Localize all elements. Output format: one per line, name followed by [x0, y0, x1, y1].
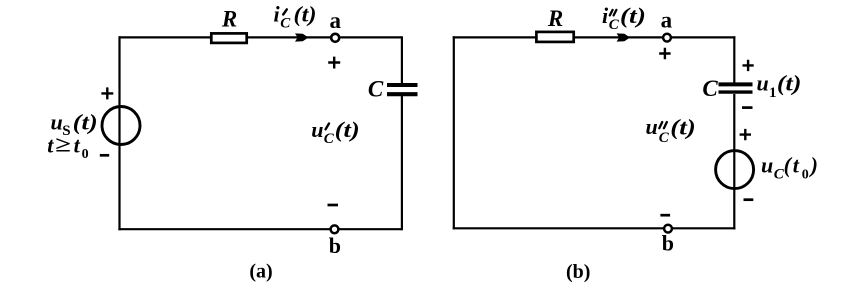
- svg-text:C: C: [368, 77, 384, 102]
- capacitor C (b) bottom plate: [719, 90, 753, 93]
- node b (a): [331, 225, 339, 233]
- svg-text:R: R: [221, 7, 237, 32]
- minus below source (b): [744, 198, 754, 201]
- node a (a): [331, 34, 339, 42]
- label u'C(t) (a) : prime: [326, 124, 329, 130]
- svg-text:0: 0: [82, 147, 89, 162]
- svg-text:a: a: [330, 8, 342, 33]
- svg-text:u: u: [311, 117, 323, 142]
- svg-text:t: t: [793, 153, 800, 178]
- svg-text:b: b: [662, 230, 674, 255]
- minus below capacitor (b): [742, 106, 753, 109]
- plus above source (b): [740, 129, 751, 140]
- current arrow (b): [617, 33, 630, 41]
- wire bottom (a): [118, 228, 402, 230]
- wire cap to source (b): [733, 94, 735, 229]
- minus below source (a): [100, 154, 109, 157]
- svg-text:): ): [809, 153, 818, 178]
- svg-text:a: a: [661, 7, 673, 32]
- capacitor C (b) top plate: [719, 82, 753, 86]
- node a (b): [663, 34, 671, 42]
- svg-text:C: C: [324, 131, 335, 147]
- svg-text:(t): (t): [335, 117, 360, 142]
- wire top (b): [453, 36, 736, 38]
- label u''C(t) (b) : double prime: [659, 122, 667, 128]
- source uC(t0) circle (b): [716, 151, 754, 189]
- svg-text:1: 1: [769, 85, 777, 101]
- svg-text:(t): (t): [670, 115, 696, 140]
- svg-text:(a): (a): [249, 261, 272, 283]
- wire right (a): [401, 36, 403, 83]
- minus above node b (a): [328, 204, 339, 207]
- svg-text:u: u: [761, 153, 773, 178]
- current arrow (a): [295, 33, 308, 41]
- plus below node a (b): [659, 48, 670, 60]
- capacitor C (a) top plate: [387, 83, 418, 87]
- svg-text:C: C: [280, 16, 291, 32]
- current label i'C(t) (a) : prime: [283, 9, 287, 14]
- svg-text:u: u: [757, 71, 769, 96]
- svg-text:(t): (t): [777, 71, 802, 96]
- minus above node b (b): [660, 214, 670, 217]
- wire top (a): [119, 36, 402, 38]
- svg-text:(b): (b): [566, 261, 590, 283]
- wire bottom (b): [453, 227, 736, 229]
- svg-text:u: u: [646, 114, 658, 139]
- svg-text:(t): (t): [620, 3, 646, 28]
- svg-text:C: C: [609, 17, 620, 33]
- svg-text:(t): (t): [73, 110, 98, 135]
- svg-text:t: t: [74, 132, 81, 157]
- svg-text:t: t: [47, 132, 54, 157]
- wire right top (b): [733, 36, 735, 82]
- plus below node a (a): [328, 57, 340, 69]
- current label i''C(t) (b) : double prime: [610, 10, 617, 16]
- node b (b): [664, 225, 672, 233]
- svg-text:b: b: [329, 233, 341, 258]
- capacitor C (a) bottom plate: [387, 92, 418, 96]
- resistor R (b): [536, 32, 573, 42]
- resistor R (a): [211, 33, 246, 43]
- svg-text:≥: ≥: [55, 132, 71, 157]
- svg-text:C: C: [702, 76, 718, 101]
- wire left (b): [453, 36, 455, 229]
- svg-text:(t): (t): [294, 2, 317, 27]
- source U_S circle (a): [102, 107, 140, 145]
- plus above source (a): [101, 87, 113, 99]
- svg-text:R: R: [547, 6, 563, 31]
- plus above capacitor (b): [743, 60, 754, 71]
- svg-text:C: C: [659, 130, 670, 146]
- wire left (a): [118, 36, 120, 230]
- svg-text:0: 0: [802, 168, 809, 183]
